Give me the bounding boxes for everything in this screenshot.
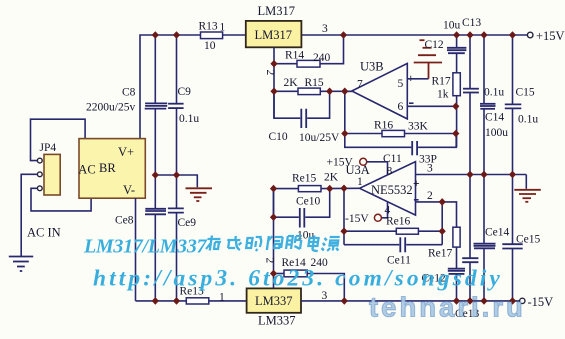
node top rail C8 xyxy=(152,31,159,39)
wire Re16 right xyxy=(418,230,442,232)
svg-text:Ce8: Ce8 xyxy=(115,215,134,227)
wire pin5 to ground xyxy=(407,78,428,80)
node mid rail Ce14 xyxy=(480,171,487,179)
svg-text:LM337: LM337 xyxy=(258,314,296,328)
wire Ce11 row xyxy=(344,244,399,246)
node top rail C15 xyxy=(509,31,516,39)
wire pin4 xyxy=(381,202,387,218)
wire Re13 to LM337 xyxy=(209,300,247,302)
wire U3B apex to node column xyxy=(345,90,352,92)
wire C9 column top xyxy=(176,35,178,104)
wire C10 loop right xyxy=(307,91,329,118)
wire Re15 right to U3A apex xyxy=(321,187,360,189)
wire top rail from BR V+ riser to +15V terminal xyxy=(140,35,527,138)
capacitor Ce10 xyxy=(300,208,305,228)
svg-text:2K: 2K xyxy=(284,77,299,89)
wire LM337 pin2 riser xyxy=(273,189,275,289)
wire Ce8 column top xyxy=(154,175,156,209)
wire bottom rail right xyxy=(301,300,520,302)
power circle +15V of U3A xyxy=(360,158,367,165)
wire Re15 left corner down xyxy=(274,189,299,218)
wire mid rail corner to ground xyxy=(525,175,527,189)
svg-text:Re16: Re16 xyxy=(386,216,411,228)
wire Ce15 bottom xyxy=(512,249,514,301)
capacitor C10 xyxy=(301,109,306,128)
svg-text:+15V: +15V xyxy=(536,29,565,43)
svg-text:10u: 10u xyxy=(443,20,461,32)
wire Ce14 bottom xyxy=(483,248,485,301)
svg-text:Ce15: Ce15 xyxy=(516,234,541,246)
terminal +15V xyxy=(527,32,533,38)
svg-text:LM317: LM317 xyxy=(258,4,296,18)
resistor R16 xyxy=(382,130,405,136)
node bottom rail Re14 xyxy=(341,297,348,305)
wire C10 loop left and bottom xyxy=(274,91,300,118)
svg-text:R14: R14 xyxy=(285,50,304,62)
wire Ce10 loop xyxy=(274,216,299,218)
node bottom rail C9 xyxy=(173,297,180,305)
regulator U LM337 xyxy=(247,288,301,312)
pin circle 1 xyxy=(37,158,42,163)
wire R15 left xyxy=(274,90,298,92)
svg-text:3: 3 xyxy=(322,23,328,35)
resistor R13 xyxy=(201,32,223,39)
wire Ce13 column xyxy=(469,175,471,259)
wire Re17 bottom to Ce12 xyxy=(456,247,458,268)
svg-text:6: 6 xyxy=(398,101,404,113)
wire JP4 pin3 to BR bottom xyxy=(31,188,91,211)
wire Ce8 column bottom xyxy=(154,214,156,301)
wire C15 column bottom xyxy=(512,108,514,174)
node C10 right xyxy=(326,88,333,96)
svg-text:C12: C12 xyxy=(425,39,444,51)
svg-text:2: 2 xyxy=(264,70,276,76)
svg-text:7: 7 xyxy=(357,79,363,91)
wire Re14 right riser to output rail xyxy=(307,274,344,301)
svg-text:http://asp3. 6to23. com/songsd: http://asp3. 6to23. com/songsdiy xyxy=(93,266,503,292)
capacitor Ce15 xyxy=(502,244,522,248)
wire C14 column bottom xyxy=(483,109,485,175)
power circle -15V of U3A xyxy=(374,214,381,221)
node bottom rail Ce14 xyxy=(480,297,487,305)
wire LM317 pin2 drop xyxy=(273,47,275,118)
wire C11 right to R17 column xyxy=(418,134,456,148)
node 0V C8 xyxy=(152,171,159,179)
svg-text:5: 5 xyxy=(398,78,404,90)
svg-text:10u/25V: 10u/25V xyxy=(299,132,340,144)
node bottom rail Ce13 xyxy=(466,297,473,305)
wire C13 to R17 xyxy=(456,53,458,73)
wire 0.1u column bottom xyxy=(469,93,471,175)
svg-text:8: 8 xyxy=(387,166,393,178)
regulator U LM317 xyxy=(246,21,302,47)
node top rail R14 xyxy=(340,31,347,39)
wire C8 column bottom xyxy=(154,109,156,175)
node pin2 R15 xyxy=(270,88,277,96)
terminal -15V xyxy=(520,298,525,303)
minus sign U3A xyxy=(414,199,419,201)
node mid rail Ce15 xyxy=(509,171,516,179)
svg-text:3: 3 xyxy=(427,163,433,175)
wire 0.1u column xyxy=(469,35,471,89)
svg-text:R16: R16 xyxy=(374,120,393,132)
svg-text:100u: 100u xyxy=(485,127,508,139)
wire R16 row xyxy=(345,133,382,135)
pin circle 3 xyxy=(37,186,42,191)
svg-text:Re17: Re17 xyxy=(428,248,453,260)
wire U3A node column xyxy=(343,188,345,244)
capacitor C13 10u (top of R17 column) xyxy=(456,35,458,47)
svg-text:+: + xyxy=(413,178,420,190)
minus sign U3B xyxy=(409,102,414,104)
node U3B out xyxy=(341,88,348,96)
node pin6 xyxy=(452,103,459,111)
svg-text:1: 1 xyxy=(219,292,225,304)
wire feedback node column x=442 xyxy=(441,202,443,245)
pin 2 wire xyxy=(416,202,457,227)
node Ce10 right xyxy=(326,185,333,193)
svg-text:Ce10: Ce10 xyxy=(296,196,321,208)
capacitor Ce13 xyxy=(462,258,478,262)
svg-text:NE5532: NE5532 xyxy=(371,183,413,197)
resistor Re13 xyxy=(186,298,209,304)
capacitor 0.1u xyxy=(463,89,479,93)
wire C15 column xyxy=(512,35,514,104)
resistor R15 xyxy=(298,88,320,95)
svg-text:1: 1 xyxy=(357,176,363,188)
svg-text:AC: AC xyxy=(78,163,95,177)
svg-text:Ce9: Ce9 xyxy=(178,217,197,229)
svg-text:240: 240 xyxy=(313,52,331,64)
svg-text:-15V: -15V xyxy=(528,295,554,309)
capacitor Ce9 xyxy=(176,175,178,208)
svg-text:33K: 33K xyxy=(408,121,429,133)
capacitor C11 xyxy=(412,141,417,155)
capacitor C9 xyxy=(168,104,184,108)
svg-text:R13: R13 xyxy=(199,21,218,33)
svg-text:V+: V+ xyxy=(118,145,134,159)
resistor R17 xyxy=(453,73,460,96)
svg-text:C11: C11 xyxy=(383,153,402,165)
svg-text:10: 10 xyxy=(204,40,216,52)
svg-text:tehnari.ru: tehnari.ru xyxy=(369,292,526,323)
svg-text:C8: C8 xyxy=(122,87,136,99)
svg-text:C13: C13 xyxy=(462,17,481,29)
svg-text:Re15: Re15 xyxy=(292,173,317,185)
wire R16 right xyxy=(405,133,456,135)
svg-text:0.1u: 0.1u xyxy=(179,113,199,125)
resistor R14 xyxy=(297,60,320,67)
node top rail 0.1u xyxy=(466,31,473,39)
wire R15 right to U3B output apex xyxy=(320,90,352,92)
pin circle 2 xyxy=(37,172,42,177)
capacitor C15 xyxy=(505,104,522,108)
capacitor Ce14 xyxy=(474,244,496,249)
svg-text:0.1u: 0.1u xyxy=(484,87,504,99)
wire R14 row xyxy=(274,63,297,65)
node pin2 R14 xyxy=(270,60,277,68)
wire C14 column xyxy=(483,35,485,104)
node top rail C14 xyxy=(480,31,487,39)
wire Ce15 column xyxy=(512,175,514,245)
wire JP4 pin2 to ground xyxy=(21,174,37,256)
wire R17 bottom to C11 corner xyxy=(456,96,458,148)
svg-text:2200u/25v: 2200u/25v xyxy=(86,102,135,114)
ground AC IN xyxy=(9,257,33,272)
svg-text:2: 2 xyxy=(263,258,275,264)
node Re14 left xyxy=(270,270,277,278)
node top rail C13 xyxy=(453,31,460,39)
wire V- riser xyxy=(135,198,137,301)
svg-text:JP4: JP4 xyxy=(40,142,57,154)
svg-text:LM317/LM337: LM317/LM337 xyxy=(83,236,208,258)
op-amp U3A triangle xyxy=(360,162,416,216)
wire R14 right riser to output rail xyxy=(320,35,344,64)
svg-text:BR: BR xyxy=(99,161,116,175)
resistor Re16 xyxy=(396,228,418,234)
wire bottom rail left xyxy=(136,300,187,302)
node 0V C9 xyxy=(173,171,180,179)
resistor Re14 xyxy=(284,270,307,277)
svg-text:U3B: U3B xyxy=(360,60,384,74)
connector JP4 xyxy=(44,154,60,195)
watermark CJK glyph boxes xyxy=(206,236,341,252)
node Re16 right xyxy=(439,227,446,235)
ground (inverted) at U3B pin5 xyxy=(414,40,442,79)
wire node column x=344.8 xyxy=(345,91,412,147)
svg-text:LM317: LM317 xyxy=(255,28,293,42)
ground 0V (dark red) xyxy=(186,188,213,201)
capacitor Ce12 xyxy=(448,269,465,274)
node R16 left xyxy=(341,130,348,138)
op-amp U3B triangle xyxy=(352,63,408,119)
svg-text:R15: R15 xyxy=(305,77,324,89)
svg-text:0.1u: 0.1u xyxy=(518,114,538,126)
svg-text:2K: 2K xyxy=(324,172,339,184)
node Re16 left xyxy=(340,227,347,235)
node Re15 left xyxy=(270,185,277,193)
svg-text:+15V: +15V xyxy=(327,157,354,169)
node bottom rail C8 xyxy=(152,297,159,305)
wire C8 column top xyxy=(154,35,156,103)
node pin2 U3A xyxy=(439,198,446,206)
wire Ce13 bottom xyxy=(469,262,471,301)
resistor Re17 xyxy=(453,227,460,247)
resistor Re15 xyxy=(298,186,321,192)
svg-text:AC IN: AC IN xyxy=(27,226,61,240)
node Ce10 left xyxy=(270,213,277,221)
node top rail C9 xyxy=(173,31,180,39)
bridge rectifier BR xyxy=(79,139,145,199)
wire Re16 row xyxy=(344,230,396,232)
node bottom rail Ce15 xyxy=(509,297,516,305)
svg-text:1: 1 xyxy=(220,22,226,34)
svg-text:-15V: -15V xyxy=(345,213,369,225)
wire pin8 xyxy=(367,162,388,176)
wire Ce12 bottom xyxy=(456,274,458,301)
capacitor Ce8 xyxy=(145,209,166,215)
wire 0V row left xyxy=(155,175,197,187)
wire Ce11 right xyxy=(406,244,442,246)
svg-text:R17: R17 xyxy=(432,76,451,88)
wire C9 column bottom xyxy=(176,108,178,175)
wire Ce9 column bottom xyxy=(176,213,178,301)
capacitor Ce11 xyxy=(400,237,405,252)
svg-text:Ce14: Ce14 xyxy=(485,227,510,239)
svg-text:2: 2 xyxy=(427,190,433,202)
wire JP4 pin1 to BR top xyxy=(31,119,86,160)
node U3A out xyxy=(340,185,347,193)
svg-text:V-: V- xyxy=(123,183,135,197)
node bottom rail Ce12 xyxy=(453,297,460,305)
svg-text:1k: 1k xyxy=(437,89,449,101)
svg-text:C15: C15 xyxy=(516,87,535,99)
wire pin6 row xyxy=(407,105,456,107)
svg-text:C14: C14 xyxy=(485,112,504,124)
capacitor C8 xyxy=(145,103,168,108)
node R16 right xyxy=(452,130,459,138)
capacitor C14 xyxy=(480,104,496,109)
wire Re14 row xyxy=(274,273,285,275)
svg-text:C9: C9 xyxy=(178,86,192,98)
node mid rail Ce13 xyxy=(466,171,473,179)
mid 0V rail from U3A output xyxy=(416,174,527,176)
wire Ce14 column xyxy=(483,175,485,244)
svg-text:C10: C10 xyxy=(269,131,288,143)
ground mid right xyxy=(514,190,541,202)
svg-text:LM337: LM337 xyxy=(255,294,293,308)
